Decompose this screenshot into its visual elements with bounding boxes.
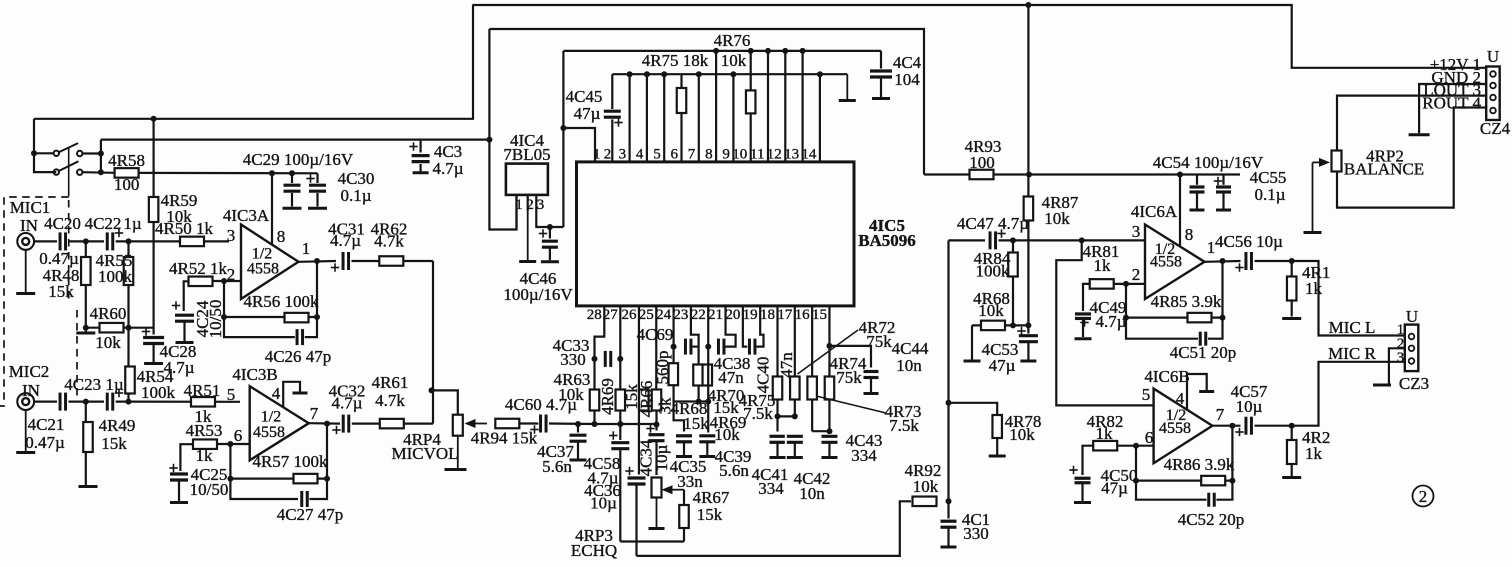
capacitor 4C53 <box>982 327 1040 375</box>
svg-text:9: 9 <box>722 147 730 163</box>
node rail/4R87 <box>1026 172 1032 178</box>
svg-text:U: U <box>1406 307 1418 326</box>
wire ROUT to 4RP2 <box>1337 108 1486 208</box>
wire IC6B pin6 <box>1136 445 1154 447</box>
resistor 4R60 <box>86 304 154 352</box>
node IC3A out <box>314 258 320 264</box>
svg-text:3: 3 <box>1132 222 1141 241</box>
svg-text:10k: 10k <box>1009 425 1035 444</box>
ground CZ4 pin2 <box>1409 84 1487 135</box>
node MIC2 a <box>83 399 89 405</box>
node 401/pin23 <box>696 399 702 405</box>
svg-text:10k: 10k <box>95 333 121 352</box>
svg-text:1k: 1k <box>1094 256 1112 275</box>
junctions row 49 <box>713 48 806 54</box>
svg-text:4R49: 4R49 <box>99 416 136 435</box>
pin 5 label IC6B <box>1142 385 1151 404</box>
svg-text:5.6n: 5.6n <box>542 457 572 476</box>
svg-text:6: 6 <box>671 147 679 163</box>
svg-text:6: 6 <box>234 426 243 445</box>
svg-text:4.7µ: 4.7µ <box>330 231 361 250</box>
svg-text:4: 4 <box>1176 389 1185 408</box>
capacitor 4C32 <box>329 382 366 435</box>
svg-text:2: 2 <box>1419 487 1428 506</box>
capacitor 4C52 <box>1178 491 1245 529</box>
capacitor 4C21 <box>25 391 68 452</box>
node 4R86 right <box>1229 478 1235 484</box>
op-amp U-4IC6A <box>1131 202 1205 299</box>
svg-text:4R76: 4R76 <box>714 31 751 50</box>
node 401/pin22 <box>705 399 711 405</box>
labels 4R75 7.5k <box>739 391 776 423</box>
svg-text:4IC3A: 4IC3A <box>223 206 270 225</box>
node 4R85 right <box>1220 315 1226 321</box>
resistor 4R51 <box>184 381 221 426</box>
ground 4R68 mid <box>964 325 981 361</box>
svg-text:6: 6 <box>1145 428 1154 447</box>
svg-text:47µ: 47µ <box>989 356 1016 375</box>
svg-text:100µ/16V: 100µ/16V <box>503 285 573 304</box>
svg-text:4C29 100µ/16V: 4C29 100µ/16V <box>243 150 354 169</box>
wire IC6B output <box>1212 425 1240 427</box>
junction pin8 riser <box>269 170 275 176</box>
resistor 4R68 10k (mid) <box>973 289 1010 330</box>
svg-text:U: U <box>1487 47 1499 66</box>
page number 2 <box>1413 486 1434 507</box>
dashed enclosure MIC inputs <box>0 197 77 406</box>
capacitor 4C43 334 <box>819 431 882 465</box>
svg-text:4558: 4558 <box>247 261 279 278</box>
svg-text:16: 16 <box>795 307 811 323</box>
wire IC3B pin6 <box>230 443 249 445</box>
node 4C69 left <box>671 344 677 350</box>
resistor 4R53 <box>186 421 231 465</box>
svg-text:100k: 100k <box>98 267 133 286</box>
svg-text:IN: IN <box>20 216 38 235</box>
connector CZ3 <box>1397 307 1429 393</box>
labels 4C58/4C36 <box>584 454 621 513</box>
svg-text:MICVOL: MICVOL <box>391 444 458 463</box>
svg-text:47µ: 47µ <box>574 104 601 123</box>
svg-text:334: 334 <box>851 446 877 465</box>
switch gang link <box>68 148 70 197</box>
node 4R86 left <box>1133 478 1139 484</box>
svg-text:24: 24 <box>656 307 672 323</box>
svg-text:3: 3 <box>1397 350 1405 366</box>
node MIC1 a <box>83 238 89 244</box>
capacitor 4C29 <box>243 150 354 208</box>
svg-text:4C27 47p: 4C27 47p <box>277 505 344 524</box>
wire pin24 column <box>672 306 674 402</box>
wire pin19 jog <box>757 306 764 347</box>
wire 4R66 to 4C34 <box>655 411 657 431</box>
svg-text:4C69: 4C69 <box>637 325 674 344</box>
svg-text:75k: 75k <box>836 368 862 387</box>
node IC6A pin2 <box>1123 281 1129 287</box>
node IC6A out <box>1220 258 1226 264</box>
wire pins18-17 join <box>778 415 795 417</box>
svg-text:1k: 1k <box>196 446 214 465</box>
wire IC3A output <box>299 260 337 263</box>
wire MIC2 to 4C21 <box>34 401 57 403</box>
svg-text:1: 1 <box>302 239 311 258</box>
capacitor 4C60 <box>505 395 577 435</box>
wire to IC6B pin5 <box>1056 240 1153 405</box>
labels 4R74 75k <box>830 354 867 387</box>
svg-text:4C56 10µ: 4C56 10µ <box>1215 232 1283 251</box>
node IC3A pin2 <box>221 278 227 284</box>
svg-text:CZ3: CZ3 <box>1399 374 1429 393</box>
node MIC1 b <box>126 238 132 244</box>
svg-text:7: 7 <box>688 147 696 163</box>
wire IC6A output <box>1205 260 1241 263</box>
wire 4R58 to bypass caps <box>139 172 318 175</box>
resistor 4R76 10k <box>714 31 756 113</box>
capacitor 4C25 <box>168 444 228 502</box>
svg-text:104: 104 <box>894 70 920 89</box>
node 4R56 left <box>221 314 227 320</box>
wire LOUT to 4RP2 <box>1337 96 1486 150</box>
svg-text:15k: 15k <box>101 434 127 453</box>
switch node lower <box>98 169 104 175</box>
ground MIC2 <box>16 410 35 453</box>
wire left rail B <box>101 139 490 141</box>
svg-text:47n: 47n <box>777 352 796 378</box>
wire row 4R75 (74) <box>612 73 847 75</box>
svg-text:5.6n: 5.6n <box>719 461 749 480</box>
node 4C47/4R84 <box>1010 237 1016 243</box>
capacitor 4C37 <box>537 424 588 476</box>
resistor 4R2 <box>1282 426 1330 478</box>
node pin15 431 <box>826 428 832 434</box>
svg-text:7.5k: 7.5k <box>889 416 919 435</box>
wire 4C60 to mix node <box>549 422 595 425</box>
svg-text:1k: 1k <box>1305 279 1323 298</box>
wire pin26 column <box>638 306 640 475</box>
resistor 4R69 (echo) <box>598 378 625 415</box>
svg-text:100k: 100k <box>141 383 176 402</box>
node 4C38 left <box>705 344 711 350</box>
resistor 4R87 <box>1024 193 1079 228</box>
pin 4 ground IC3B <box>272 382 308 407</box>
svg-text:4.7µ: 4.7µ <box>331 394 362 413</box>
wire mix node <box>595 423 657 425</box>
node 4R1 top <box>1289 258 1295 264</box>
pin 1 label IC6A <box>1207 238 1216 257</box>
svg-text:8: 8 <box>1185 225 1194 244</box>
junction rail A / 4R59 branch <box>151 116 157 122</box>
svg-text:4C52 20p: 4C52 20p <box>1178 510 1245 529</box>
svg-text:4R66: 4R66 <box>637 381 656 418</box>
resistor 4R57 <box>230 452 328 483</box>
resistor 4R93 <box>924 137 1240 179</box>
potentiometer 4RP3 <box>571 478 662 561</box>
wire switch left column <box>34 119 56 172</box>
wire IC6A fb down <box>1126 284 1198 339</box>
resistor 4R55 <box>96 241 134 327</box>
capacitor 4C1 <box>939 501 991 547</box>
wire switch pole1 output <box>82 152 101 154</box>
wire 4C31 to 4R62 <box>352 260 434 262</box>
svg-text:4R60: 4R60 <box>90 304 127 323</box>
svg-text:4R94 15k: 4R94 15k <box>471 429 538 448</box>
ground 7BL05 pin2 <box>519 211 536 262</box>
labels CZ4 pins <box>1422 55 1481 113</box>
capacitor 4C45 <box>566 87 623 127</box>
svg-text:4.7k: 4.7k <box>374 232 404 251</box>
svg-text:4R53: 4R53 <box>186 421 223 440</box>
svg-text:BALANCE: BALANCE <box>1344 160 1424 179</box>
switch S1 pole 1 (upper) <box>54 143 83 156</box>
svg-text:1/2: 1/2 <box>261 409 281 426</box>
svg-text:14: 14 <box>801 147 817 163</box>
svg-text:4: 4 <box>636 147 644 163</box>
wiper arrow 4RP3 <box>662 485 685 494</box>
node pin17 416 <box>792 413 798 419</box>
pin 4 ground IC6B <box>1176 374 1214 410</box>
node pin8 rail <box>1177 172 1183 178</box>
pin 2 label IC6A <box>1132 265 1141 284</box>
node mix/pin27 <box>617 421 623 427</box>
regulator U-4IC4 7BL05 <box>503 131 550 195</box>
wire pin20 column <box>743 306 748 347</box>
svg-text:4IC3B: 4IC3B <box>232 365 277 384</box>
pin 8 IC6A <box>1180 175 1193 247</box>
wire top +12V rail <box>472 5 1486 68</box>
svg-text:CZ4: CZ4 <box>1480 119 1511 138</box>
pin 7 label IC6B <box>1216 405 1225 424</box>
pin 7 label IC3B <box>310 404 319 423</box>
node pin15 346 <box>826 343 832 349</box>
connector CZ4 <box>1480 47 1511 138</box>
capacitor 4C44 10n <box>829 339 928 394</box>
svg-text:BA5096: BA5096 <box>858 231 916 250</box>
svg-text:5: 5 <box>227 385 236 404</box>
wire pin16 column <box>811 306 813 431</box>
wire 4R59 column <box>153 119 155 335</box>
resistor 4R86 <box>1136 455 1235 485</box>
resistor 4R78 <box>949 403 1042 456</box>
svg-text:4R51: 4R51 <box>184 381 221 400</box>
capacitor 4C3 <box>409 140 463 178</box>
svg-text:0.1µ: 0.1µ <box>1254 185 1285 204</box>
wire pin23 jog <box>691 306 699 402</box>
ground 4R48/4R60 <box>76 328 95 333</box>
svg-text:20: 20 <box>725 307 740 323</box>
resistor 4R94 <box>471 419 538 448</box>
resistor 4R75 18k <box>642 51 709 113</box>
svg-text:10µ: 10µ <box>1236 397 1263 416</box>
wire 4C22 to 4R50 <box>116 240 229 242</box>
junction rail B / 489 vertical <box>486 137 492 143</box>
svg-text:15k: 15k <box>683 414 709 433</box>
svg-text:10µ: 10µ <box>590 494 617 513</box>
svg-text:7BL05: 7BL05 <box>503 145 550 164</box>
wire IC3B fb right <box>302 424 327 499</box>
wire switch pole2 output <box>82 171 114 174</box>
pin labels 7BL05 <box>515 195 544 213</box>
ground row74 right <box>839 74 856 100</box>
svg-text:330: 330 <box>963 524 989 543</box>
svg-text:21: 21 <box>708 307 723 323</box>
resistor 4R92 <box>905 461 942 506</box>
capacitor 4C33 <box>553 336 613 369</box>
resistor 4R52 <box>169 259 228 286</box>
svg-text:23: 23 <box>673 307 688 323</box>
wire 948 column <box>947 240 949 501</box>
wire IC3A pin2 <box>224 280 241 282</box>
resistor 4R49 <box>79 402 136 487</box>
node 4C37 top <box>575 421 581 427</box>
svg-text:4R58: 4R58 <box>108 151 145 170</box>
ground CZ3 pin2 <box>1373 348 1405 385</box>
svg-text:4C40: 4C40 <box>754 357 773 394</box>
wire row 401 <box>674 400 709 402</box>
pin 8 IC3A <box>272 173 285 246</box>
capacitor 4C30 <box>306 169 374 208</box>
wire IC6B fb down <box>1136 446 1208 500</box>
capacitor 4C34 <box>637 424 672 476</box>
resistor 4R81 <box>1083 242 1126 289</box>
wires IC5 top pins <box>612 51 820 162</box>
svg-text:ECHQ: ECHQ <box>571 541 617 560</box>
switch S1 pole 2 (lower) <box>54 161 83 175</box>
node MICVOL top <box>429 387 435 393</box>
wire 7BL05 pin3 to 4C46 <box>536 211 563 227</box>
svg-text:2: 2 <box>604 147 612 163</box>
svg-text:17: 17 <box>777 307 793 323</box>
capacitor 4C54 <box>1153 153 1264 210</box>
switch node upper <box>98 151 104 157</box>
junction on top rail <box>1025 2 1031 8</box>
wire IC6B fb right <box>1213 426 1232 500</box>
svg-text:IN: IN <box>22 381 40 400</box>
ground MIC1 <box>16 250 35 294</box>
node 563/pin1 branch <box>560 125 566 131</box>
wire IC6A fb right <box>1203 262 1223 339</box>
svg-text:334: 334 <box>758 479 784 498</box>
svg-text:4R61: 4R61 <box>372 373 409 392</box>
svg-text:MIC L: MIC L <box>1329 318 1376 337</box>
svg-text:7: 7 <box>310 404 319 423</box>
node 4C46 top <box>547 224 553 230</box>
resistor 4R75 7.5k (pin18) <box>773 377 783 400</box>
svg-text:10k: 10k <box>558 385 584 404</box>
wire 7BL05 pin1 stub <box>515 211 517 230</box>
svg-text:4558: 4558 <box>253 424 285 441</box>
connector MIC1 IN jack <box>10 198 51 250</box>
node 948/4R78 <box>946 400 952 406</box>
labels 4R73 7.5k + leader <box>816 396 921 435</box>
svg-text:3: 3 <box>619 147 627 163</box>
node 4R57 left <box>227 476 233 482</box>
labels 4R72 75k + leader <box>798 318 896 374</box>
wire 4C32 to 4R61 <box>352 423 433 425</box>
wire 4C20 to 4C22 <box>69 240 105 242</box>
wire pin28 jog <box>595 306 605 424</box>
capacitor 4C22 <box>85 214 142 252</box>
svg-text:1: 1 <box>593 147 601 163</box>
wire 4R94 to 4C60 <box>519 422 538 424</box>
wire pin18 column <box>776 306 778 432</box>
svg-text:4558: 4558 <box>1159 420 1191 437</box>
node IC6B out <box>1229 423 1235 429</box>
svg-text:26: 26 <box>621 307 637 323</box>
capacitor 4C38 47n <box>714 337 751 387</box>
svg-text:10k: 10k <box>721 51 747 70</box>
svg-text:3: 3 <box>227 226 236 245</box>
resistor 4R63 <box>554 370 600 411</box>
wire IC3A fb down <box>224 281 298 337</box>
svg-text:4R86 3.9k: 4R86 3.9k <box>1164 455 1235 474</box>
wire pins16-15 join <box>812 430 829 432</box>
svg-text:10k: 10k <box>978 301 1004 320</box>
node 4R57 right <box>324 476 330 482</box>
switch left upper contact <box>31 150 37 156</box>
node 4R85 left <box>1123 315 1129 321</box>
svg-text:330: 330 <box>560 350 586 369</box>
svg-text:5: 5 <box>1142 385 1151 404</box>
capacitor 4C51 <box>1170 330 1237 362</box>
svg-text:25: 25 <box>639 307 654 323</box>
pin 6 label IC3B <box>234 426 243 445</box>
wire 563 column <box>562 51 564 227</box>
op-amp U-4IC3B <box>232 365 308 460</box>
svg-text:10k: 10k <box>913 477 939 496</box>
node IC6B pin6 <box>1133 443 1139 449</box>
capacitor 4C42 10n <box>785 434 831 503</box>
capacitor 4C41 334 <box>752 434 789 498</box>
potentiometer 4RP2 <box>1332 147 1425 179</box>
resistor 4R72 75k (pin17) <box>790 377 800 400</box>
svg-text:10/50: 10/50 <box>190 480 229 499</box>
resistor on pin24 <box>669 363 679 385</box>
svg-text:0.1µ: 0.1µ <box>340 186 371 205</box>
wire pin25 column <box>655 306 657 389</box>
capacitor 4C69 560p <box>637 325 694 385</box>
svg-text:8: 8 <box>705 147 713 163</box>
svg-text:4C26 47p: 4C26 47p <box>265 347 332 366</box>
resistor 4R58 <box>108 151 145 194</box>
wire to IC5 pin1 <box>563 128 595 162</box>
wire echo send bottom <box>620 540 684 542</box>
svg-text:3: 3 <box>537 197 545 213</box>
pin numbers 28-15 <box>587 307 827 323</box>
capacitor 4C4 <box>868 51 922 99</box>
wire 4R87 column <box>1027 5 1029 340</box>
svg-text:4.7µ: 4.7µ <box>432 159 463 178</box>
svg-text:1k: 1k <box>1305 444 1323 463</box>
label MIC L <box>1329 318 1376 337</box>
svg-text:4.7k: 4.7k <box>375 391 405 410</box>
svg-text:4.7µ: 4.7µ <box>1095 312 1126 331</box>
svg-text:4R50 1k: 4R50 1k <box>155 219 214 238</box>
resistor on pin22 (4R70) <box>703 365 713 386</box>
capacitor 4C35 33n <box>670 402 707 492</box>
pin 1 label IC3A <box>302 239 311 258</box>
capacitor 4C57 <box>1231 382 1268 437</box>
svg-text:4R69: 4R69 <box>598 378 617 415</box>
wire MIC1 to 4C20 <box>34 240 57 242</box>
svg-text:1k: 1k <box>1096 424 1114 443</box>
node 4C33 right <box>617 356 623 362</box>
pin 3 label IC6A <box>1132 222 1141 241</box>
capacitor 4C47 <box>957 214 1029 251</box>
resistor 4R62 <box>371 220 408 266</box>
svg-text:MIC R: MIC R <box>1328 344 1376 363</box>
capacitor 4C36 <box>625 467 647 556</box>
wire second rail <box>489 29 924 175</box>
